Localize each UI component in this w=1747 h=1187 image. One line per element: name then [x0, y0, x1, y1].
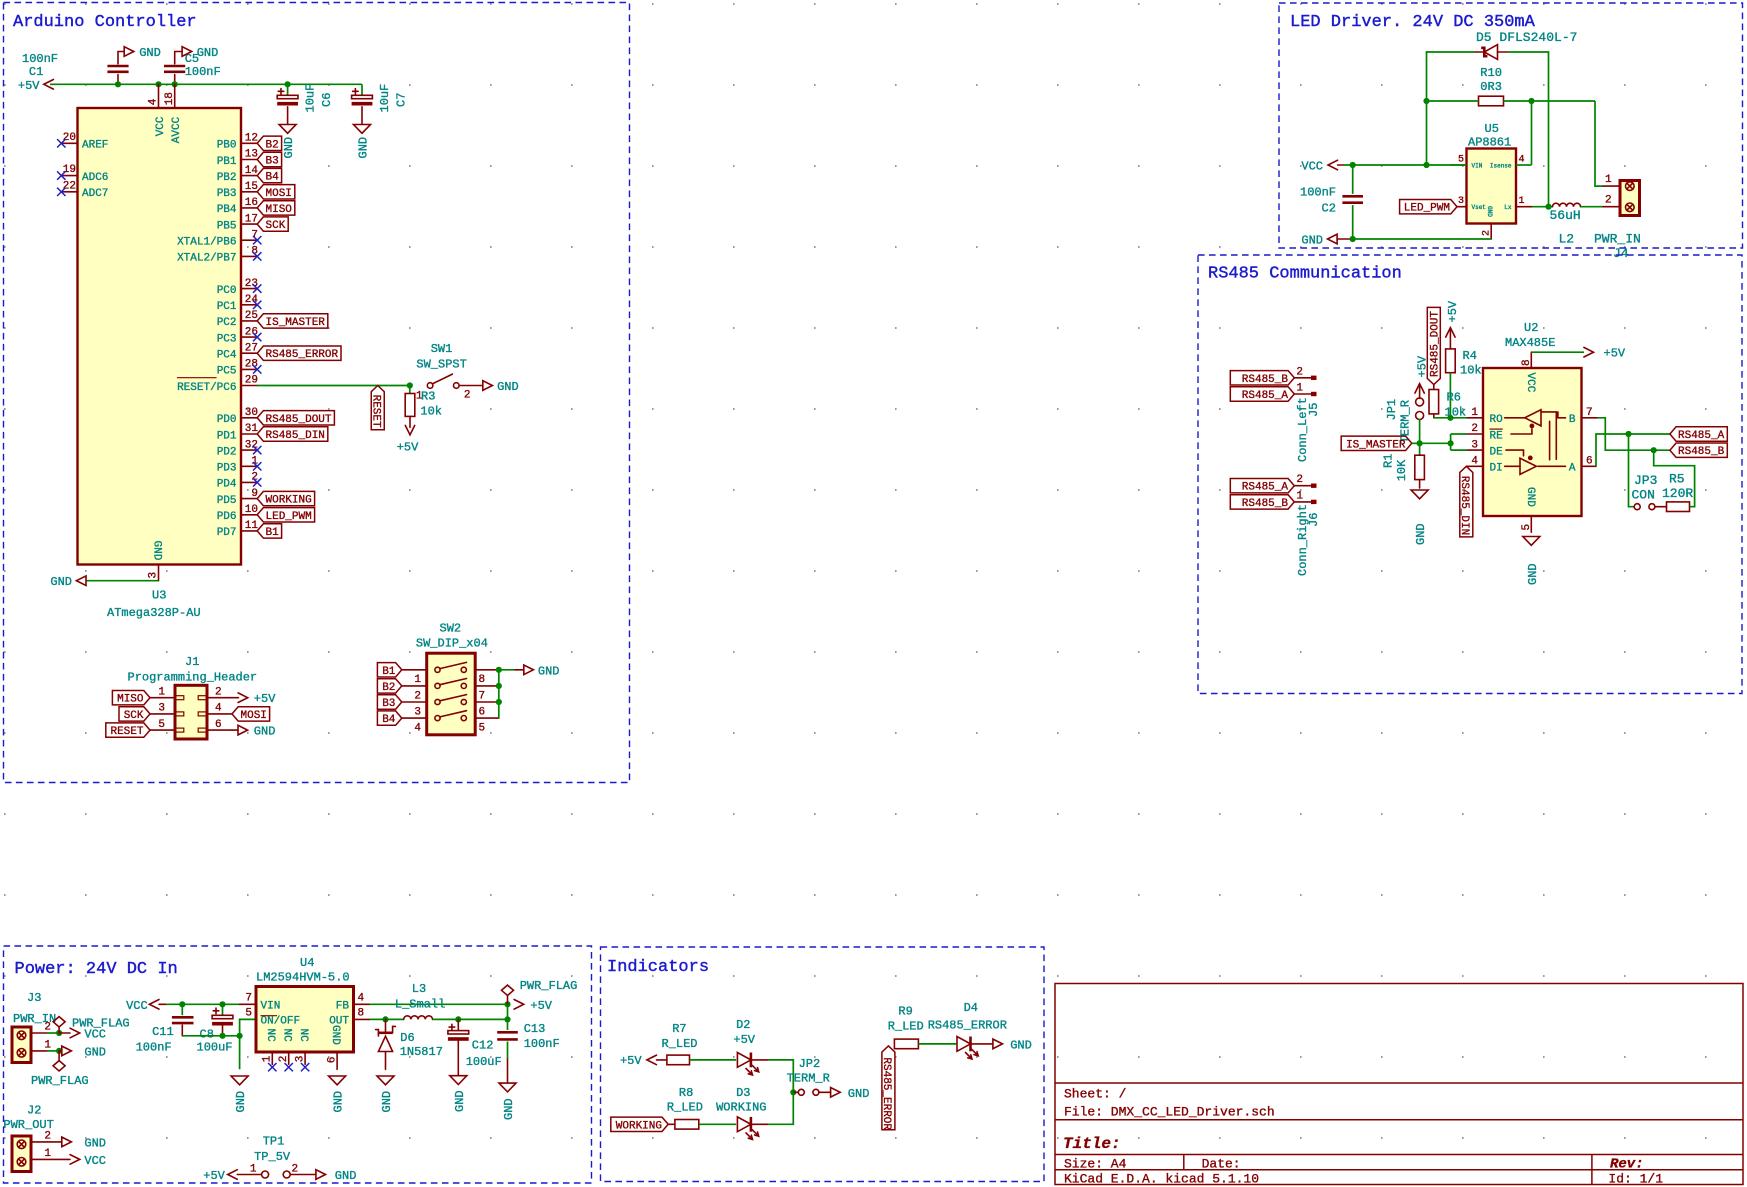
svg-text:TP_5V: TP_5V: [254, 1150, 291, 1164]
svg-text:3: 3: [1458, 196, 1464, 207]
GND symbol at C1: [118, 46, 161, 60]
svg-text:R3: R3: [421, 390, 435, 404]
svg-text:Date:: Date:: [1202, 1157, 1241, 1172]
L3 value L_Small: [395, 997, 445, 1011]
U3 pin 11 PD7 stub: [217, 520, 259, 539]
svg-text:7: 7: [479, 690, 486, 702]
U3 pin 18 number: [164, 92, 176, 105]
svg-text:VCC: VCC: [155, 116, 167, 136]
svg-text:PWR_FLAG: PWR_FLAG: [520, 979, 578, 993]
J1 pin 4 stub: [198, 703, 232, 716]
global label B3 at SW2 pin 3: [377, 695, 401, 710]
svg-text:WORKING: WORKING: [716, 1101, 766, 1115]
C5 value 100nF: [185, 65, 221, 79]
resistor R6 10k: [1429, 385, 1439, 418]
U3 pin 2 PD4 (no connect): [217, 472, 262, 491]
capacitor C1: [107, 52, 128, 85]
connector J5 Conn_Left pin 1 with label RS485_A: [1230, 383, 1316, 403]
svg-text:100uF: 100uF: [197, 1041, 233, 1055]
+5V power symbol at R7: [620, 1054, 667, 1068]
U2 pin 5 name GND: [1524, 487, 1536, 507]
R4 value 10k: [1460, 364, 1482, 378]
svg-text:5: 5: [158, 719, 165, 731]
resistor R10 0R3: [1479, 96, 1504, 106]
U2 pin 5 GND stub (bottom): [1521, 516, 1533, 532]
capacitor C13 100nF: [497, 1019, 518, 1083]
svg-text:DE: DE: [1490, 446, 1504, 458]
C6 reference (vertical): [320, 93, 334, 107]
J1 pin 2 stub: [198, 687, 232, 700]
inductor L3 L_Small: [404, 1016, 433, 1020]
junction A row: [1625, 431, 1631, 437]
svg-text:R8: R8: [679, 1086, 693, 1100]
svg-text:RE: RE: [1490, 430, 1504, 442]
resistor R9 R_LED: [894, 1039, 918, 1049]
svg-text:TERM_R: TERM_R: [787, 1072, 830, 1086]
svg-text:10K: 10K: [1395, 459, 1409, 481]
global label IS_MASTER at pin 25: [257, 314, 328, 329]
svg-text:R_LED: R_LED: [667, 1101, 703, 1115]
+5V power symbol at J1 pin 2: [232, 692, 276, 706]
U3 pin 25 PC2 stub: [217, 310, 258, 329]
U2 pin 3 DE: [1467, 439, 1503, 458]
JP2 value TERM_R: [787, 1072, 830, 1086]
wire R5 to B row junction: [1654, 450, 1695, 507]
U5 reference: [1485, 122, 1499, 136]
wire R4 to RO net: [1449, 373, 1451, 418]
svg-text:2: 2: [1296, 366, 1303, 378]
connector J4 PWR_IN body: [1620, 181, 1640, 216]
svg-text:1: 1: [250, 1163, 257, 1175]
svg-text:SW1: SW1: [431, 342, 453, 356]
diode D5 DFLS240L-7 (schottky): [1475, 45, 1509, 60]
J2 screw terminal pin 2: [17, 1140, 26, 1149]
connector J5 Conn_Left pin 2 with label RS485_B: [1230, 366, 1316, 386]
switch SW1 SW_SPST: [427, 374, 459, 388]
svg-text:Size: A4: Size: A4: [1064, 1157, 1127, 1172]
svg-text:CON: CON: [1632, 488, 1655, 503]
SW1 value SW_SPST: [416, 358, 466, 372]
J1 pin 6 stub: [198, 719, 232, 732]
svg-text:B2: B2: [266, 139, 279, 151]
svg-text:R1: R1: [1381, 454, 1395, 468]
junction R10 right: [1528, 98, 1534, 104]
title block text Rev: [1610, 1157, 1644, 1173]
svg-text:MAX485E: MAX485E: [1505, 336, 1555, 350]
U3 pin 1 PD3 (no connect): [217, 456, 262, 475]
U3 pin 12 PB0 stub: [217, 133, 258, 152]
title block text File: [1064, 1105, 1275, 1120]
svg-text:SW_DIP_x04: SW_DIP_x04: [416, 637, 488, 651]
GND symbol at C5: [175, 46, 219, 60]
global label RESET (vertical) on RESET net: [370, 386, 385, 430]
capacitor C11 100nF: [172, 1004, 194, 1036]
wire +5V rail: [50, 83, 362, 85]
U2 pin 8 VCC stub: [1521, 352, 1533, 368]
J5 reference (vertical): [1307, 403, 1321, 417]
global label RESET at J1 pin 5: [106, 723, 150, 738]
wire FB to +5V: [370, 1003, 508, 1005]
wire L3 to +5V junctions: [433, 1004, 508, 1019]
connector J6 Conn_Right pin 1 with label RS485_B: [1230, 490, 1316, 510]
svg-text:PD3: PD3: [217, 463, 237, 475]
C13 reference: [524, 1022, 546, 1036]
svg-text:LM2594HVM-5.0: LM2594HVM-5.0: [256, 971, 350, 985]
junction FB/+5V: [504, 1001, 510, 1007]
svg-text:4: 4: [1471, 456, 1478, 468]
junction JP2: [790, 1089, 796, 1095]
svg-text:2: 2: [292, 1163, 299, 1175]
svg-text:NC: NC: [297, 1029, 309, 1043]
LED D2: [737, 1053, 768, 1076]
svg-text:RESET/PC6: RESET/PC6: [177, 382, 236, 394]
svg-text:5: 5: [1458, 155, 1464, 166]
svg-text:8: 8: [479, 674, 486, 686]
VCC power symbol at J3 pin 2: [59, 1028, 106, 1042]
svg-text:RS485_B: RS485_B: [1242, 498, 1289, 510]
svg-text:100nF: 100nF: [136, 1041, 172, 1055]
svg-text:J2: J2: [27, 1104, 41, 1118]
R10 value 0R3: [1480, 80, 1502, 94]
svg-text:GND: GND: [1414, 523, 1428, 545]
C12 value 100uF: [466, 1055, 502, 1069]
svg-text:3: 3: [295, 1056, 307, 1063]
svg-text:R_LED: R_LED: [888, 1020, 924, 1034]
+5V power symbol above JP1 (vertical): [1415, 355, 1430, 398]
svg-text:4: 4: [147, 98, 159, 105]
svg-text:PB4: PB4: [217, 204, 237, 216]
svg-text:4: 4: [215, 703, 222, 715]
svg-text:VCC: VCC: [84, 1028, 106, 1042]
U2 internal driver buffer: [1505, 450, 1537, 474]
U3 pin 4 name VCC: [155, 116, 167, 136]
U4 pin 7 VIN stub: [240, 992, 281, 1012]
GND symbol at U3 bottom: [50, 575, 86, 589]
svg-text:R10: R10: [1480, 66, 1502, 80]
J3 screw terminal pin 2: [17, 1031, 26, 1040]
VCC power symbol at U4 input: [126, 999, 166, 1013]
GND symbol at J1 pin 6: [232, 725, 275, 739]
svg-text:100nF: 100nF: [524, 1037, 560, 1051]
svg-text:GND: GND: [1486, 206, 1493, 217]
U3 pin 10 PD6 stub: [217, 504, 258, 523]
IC U4 LM2594HVM-5.0 body: [256, 987, 354, 1053]
global label WORKING at R8: [611, 1117, 668, 1132]
U3 pin 20 AREF (no connect): [57, 132, 108, 152]
J1 pin 3 stub: [150, 703, 184, 716]
svg-text:MOSI: MOSI: [241, 710, 267, 722]
junction GND/C2: [1350, 236, 1356, 242]
U4 pin 4 FB stub: [336, 992, 370, 1012]
svg-text:Title:: Title:: [1063, 1135, 1121, 1153]
svg-text:B1: B1: [266, 527, 280, 539]
wire SW1 to GND: [459, 385, 483, 387]
svg-text:ON/OFF: ON/OFF: [261, 1016, 301, 1028]
junction VCC pin/+5V: [155, 81, 161, 87]
svg-text:PWR_FLAG: PWR_FLAG: [31, 1074, 89, 1088]
svg-text:J5: J5: [1307, 403, 1321, 417]
GND symbol at TP1: [316, 1169, 357, 1183]
title block text Title: [1063, 1135, 1121, 1153]
PWR_FLAG symbol at +5V: [502, 979, 578, 1004]
jumper JP3 CON (open): [1634, 504, 1666, 510]
wire RESET net from pin 29 to SW1: [257, 385, 410, 387]
D2 value +5V: [733, 1033, 755, 1047]
U3 value ATmega328P-AU: [107, 606, 201, 620]
svg-text:XTAL2/PB7: XTAL2/PB7: [177, 253, 236, 265]
jumper JP1 TERM_R (open): [1416, 398, 1424, 420]
svg-text:C12: C12: [472, 1039, 494, 1053]
svg-text:FB: FB: [336, 1001, 350, 1013]
section box: Arduino Controller: [4, 3, 630, 783]
U3 pin 9 PD5 stub: [217, 488, 258, 507]
U5 pin 2 GND (bottom): [1482, 206, 1494, 239]
svg-text:1: 1: [262, 1055, 274, 1062]
U3 pin 16 PB4 stub: [217, 197, 258, 216]
J1 reference: [185, 655, 199, 669]
+5V power symbol above R4 (vertical): [1446, 300, 1460, 349]
U3 pin 4 number: [147, 98, 159, 105]
wire R9 to D4: [918, 1043, 956, 1045]
C1 reference: [29, 65, 43, 79]
U3 pin 3 name GND (vertical): [150, 541, 162, 561]
svg-text:C7: C7: [394, 93, 408, 107]
IC U5 AP8861 body: [1467, 149, 1517, 224]
svg-text:RS485_DOUT: RS485_DOUT: [266, 414, 332, 426]
wire R10 row: [1427, 100, 1596, 102]
svg-text:1: 1: [414, 674, 421, 686]
junction SW2 pin 6: [496, 699, 502, 705]
C12 reference: [472, 1039, 494, 1053]
global label RS485_ERROR (vertical) at R9: [880, 1046, 895, 1131]
global label B2 at pin 12: [257, 136, 281, 151]
wire VCC rail to U4 pin 7: [166, 1003, 240, 1005]
JP3 value CON: [1632, 488, 1655, 503]
svg-text:18: 18: [164, 92, 176, 105]
svg-text:1: 1: [1519, 196, 1525, 207]
svg-text:GND: GND: [1301, 233, 1323, 247]
R1 value 10K (vertical): [1395, 459, 1409, 481]
svg-text:PC3: PC3: [217, 333, 237, 345]
svg-text:GND: GND: [1524, 487, 1536, 507]
svg-text:PC0: PC0: [217, 285, 237, 297]
U3 pin 15 PB3 stub: [217, 181, 258, 200]
GND symbol at J3 pin 1: [59, 1045, 106, 1059]
global label IS_MASTER: [1341, 436, 1412, 451]
svg-text:WORKING: WORKING: [266, 495, 312, 507]
svg-text:2: 2: [414, 690, 421, 702]
SW2 pin 5 stub: [475, 718, 499, 734]
title block frame: [1055, 984, 1743, 1185]
svg-text:2: 2: [464, 389, 471, 401]
junction pin5 branch/GND row: [237, 1033, 243, 1039]
R9 value R_LED: [888, 1020, 924, 1034]
wire GND row under C11/C8: [182, 1035, 239, 1037]
U5 pin 3 Vset: [1457, 196, 1486, 211]
svg-text:XTAL1/PB6: XTAL1/PB6: [177, 237, 236, 249]
svg-text:4: 4: [414, 723, 421, 735]
svg-text:R4: R4: [1463, 349, 1477, 363]
svg-text:ADC6: ADC6: [82, 172, 108, 184]
GND symbol at D4: [993, 1038, 1032, 1052]
svg-text:30: 30: [245, 407, 258, 419]
svg-text:JP3: JP3: [1634, 473, 1657, 488]
capacitor C12 100uF polarized: [448, 1019, 469, 1075]
svg-text:5: 5: [479, 723, 486, 735]
svg-text:RS485_A: RS485_A: [1678, 430, 1725, 442]
svg-text:C11: C11: [152, 1025, 174, 1039]
svg-text:GND: GND: [357, 137, 371, 159]
U4 value LM2594HVM-5.0: [256, 971, 350, 985]
SW2 pin 3 stub and contact: [402, 695, 467, 719]
J6 reference (vertical): [1307, 513, 1321, 527]
svg-text:GND: GND: [139, 46, 161, 60]
C7 reference (vertical): [394, 93, 408, 107]
LED D4: [957, 1037, 993, 1060]
diode D6 1N5817 (schottky to GND): [376, 1019, 396, 1069]
svg-text:C2: C2: [1322, 202, 1336, 216]
J3 pin 1 stub: [31, 1039, 59, 1051]
resistor R8 R_LED: [668, 1120, 699, 1130]
svg-text:B: B: [1569, 414, 1576, 426]
R5 reference: [1669, 472, 1685, 487]
svg-text:Lx: Lx: [1504, 204, 1512, 211]
svg-text:ADC7: ADC7: [82, 188, 108, 200]
SW2 pin 2 stub and contact: [402, 679, 467, 703]
GND symbol at SW1: [483, 380, 519, 394]
SW2 pin 6 stub: [475, 702, 499, 718]
U4 pin 5 ON/OFF stub: [245, 1007, 300, 1027]
svg-text:+5V: +5V: [530, 999, 552, 1013]
wire R8 to D3: [699, 1123, 736, 1125]
wire SW2 outputs common: [499, 670, 515, 718]
R9 reference: [898, 1005, 912, 1019]
junction C11/VCC: [179, 1001, 185, 1007]
GND symbol below U4 ON/OFF: [231, 1076, 248, 1113]
svg-text:B3: B3: [382, 698, 395, 710]
svg-text:2: 2: [215, 687, 222, 699]
svg-text:+5V: +5V: [1415, 355, 1429, 377]
resistor R3 10k (pull-up): [405, 386, 415, 428]
svg-text:PD2: PD2: [217, 446, 237, 458]
svg-text:RS485_DIN: RS485_DIN: [266, 430, 325, 442]
svg-text:3: 3: [1471, 439, 1478, 451]
U3 pin 27 PC4 stub: [217, 342, 258, 361]
VCC power symbol (LED driver): [1301, 159, 1344, 173]
svg-text:6: 6: [327, 1057, 339, 1064]
svg-text:GND: GND: [282, 137, 296, 159]
global label RS485_DIN at pin 31: [257, 427, 328, 442]
connector J6 Conn_Right pin 2 with label RS485_A: [1230, 474, 1316, 494]
svg-text:PB0: PB0: [217, 140, 237, 152]
junction IS_MASTER/RE-DE: [1448, 440, 1454, 446]
svg-text:6: 6: [215, 719, 222, 731]
svg-text:TP1: TP1: [263, 1135, 285, 1149]
svg-text:B2: B2: [382, 682, 395, 694]
J1 pin 1 stub: [150, 687, 184, 700]
J1 value Programming_Header: [128, 671, 258, 685]
global label RS485_DIN (vertical) at U2 pin 4: [1458, 466, 1473, 537]
D6 reference: [400, 1031, 414, 1045]
global label B1 at pin 11: [257, 524, 281, 539]
svg-text:5: 5: [245, 1007, 252, 1019]
capacitor C2 100nF: [1342, 165, 1363, 239]
svg-text:GND: GND: [1526, 563, 1540, 585]
U4 pin 6 GND stub: [327, 1025, 341, 1069]
svg-text:31: 31: [245, 423, 259, 435]
R8 reference: [679, 1086, 693, 1100]
svg-text:PD5: PD5: [217, 495, 237, 507]
svg-text:B1: B1: [382, 666, 396, 678]
junction R4/RO: [1447, 415, 1453, 421]
wire IS_MASTER net: [1412, 442, 1451, 444]
title block text Sheet: [1064, 1087, 1127, 1102]
svg-text:GND: GND: [453, 1090, 467, 1112]
L2 value 56uH: [1550, 208, 1581, 223]
svg-text:19: 19: [63, 164, 76, 176]
IC U3 ATmega328P-AU body: [78, 108, 242, 565]
svg-text:JP1: JP1: [1385, 399, 1399, 421]
svg-text:20: 20: [63, 132, 76, 144]
wire U2 pin 7 B to RS485_B: [1598, 418, 1670, 450]
svg-text:KiCad E.D.A. kicad 5.1.10: KiCad E.D.A. kicad 5.1.10: [1064, 1172, 1259, 1187]
connector J1 Programming_Header body: [175, 685, 207, 739]
U3 pin 22 ADC7 (no connect): [57, 180, 108, 200]
svg-text:U5: U5: [1485, 122, 1499, 136]
svg-text:+5V: +5V: [18, 79, 40, 93]
U3 pin 18 AVCC stub: [174, 84, 176, 108]
svg-text:Sheet: /: Sheet: /: [1064, 1087, 1127, 1102]
+5V power symbol at TP1: [203, 1169, 261, 1183]
global label RS485_DOUT (vertical): [1427, 307, 1441, 384]
svg-text:PWR_IN: PWR_IN: [1594, 232, 1641, 247]
svg-text:2: 2: [44, 1130, 51, 1142]
capacitor C8 100uF polarized: [212, 1004, 233, 1036]
svg-text:0R3: 0R3: [1480, 80, 1502, 94]
svg-text:GND: GND: [150, 541, 162, 561]
svg-text:2: 2: [278, 1056, 290, 1063]
svg-text:1: 1: [1471, 407, 1478, 419]
svg-text:25: 25: [245, 310, 258, 322]
wire D2 to JP2: [768, 1060, 793, 1092]
junction IS_MASTER/JP1: [1417, 440, 1423, 446]
SW1 pin 2 number: [464, 389, 471, 401]
+5V power symbol below R3: [397, 425, 419, 454]
svg-text:C8: C8: [200, 1028, 214, 1042]
U3 pin 3 GND stub (bottom): [148, 565, 160, 581]
svg-text:C1: C1: [29, 65, 43, 79]
svg-text:7: 7: [1586, 407, 1593, 419]
J2 screw terminal pin 1: [17, 1158, 26, 1167]
wire D5 right down: [1508, 52, 1549, 207]
svg-text:100nF: 100nF: [185, 65, 221, 79]
section box: Power 24V DC In: [4, 946, 592, 1183]
global label RS485_ERROR at pin 27: [257, 346, 341, 361]
junction Lx/D5 branch: [1545, 204, 1551, 210]
svg-text:JP2: JP2: [799, 1057, 821, 1071]
D4 reference: [964, 1001, 978, 1015]
U2 value MAX485E: [1505, 336, 1555, 350]
wire R7 to D2: [690, 1059, 737, 1061]
svg-text:A: A: [1569, 463, 1576, 475]
wire JP1 to IS_MASTER net: [1419, 419, 1421, 443]
U3 pin 8 XTAL2/PB7 (no connect): [177, 246, 261, 265]
svg-text:PD7: PD7: [217, 527, 237, 539]
svg-text:2: 2: [1296, 474, 1303, 486]
svg-text:NC: NC: [264, 1029, 276, 1043]
svg-text:3: 3: [414, 706, 421, 718]
svg-text:27: 27: [245, 342, 258, 354]
